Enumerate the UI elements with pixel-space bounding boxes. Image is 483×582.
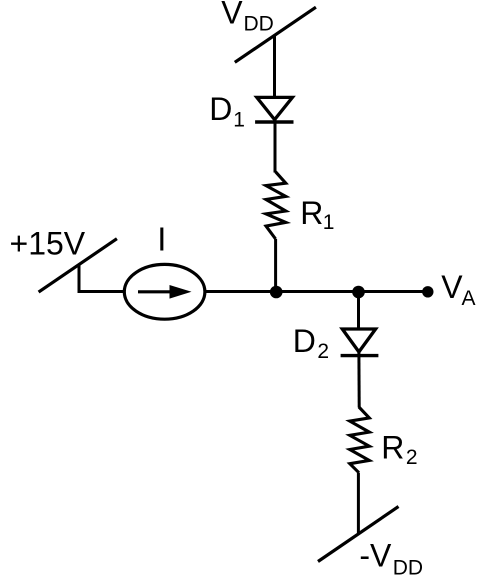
svg-text:R: R: [300, 195, 323, 231]
svg-text:2: 2: [406, 446, 418, 469]
svg-text:1: 1: [233, 108, 245, 131]
wire R2 to -VDD: [357, 473, 360, 533]
svg-text:R: R: [381, 430, 404, 466]
svg-text:1: 1: [323, 211, 335, 234]
resistor R2: [350, 407, 370, 473]
current source I: [124, 264, 205, 319]
diode D2: [341, 329, 379, 356]
wire D2 cathode to R2: [357, 352, 360, 408]
svg-text:DD: DD: [244, 13, 274, 36]
label R2: [381, 430, 417, 470]
label R1: [300, 195, 334, 234]
label VA: [441, 269, 475, 310]
terminal node VA: [422, 286, 433, 297]
svg-text:D: D: [293, 323, 316, 359]
wire node to D2 anode: [357, 292, 360, 329]
label D1: [209, 91, 245, 132]
wire D1 cathode to R1: [274, 120, 277, 173]
label D2: [293, 323, 329, 363]
supply rail -VDD (slash symbol): [318, 507, 399, 562]
supply rail +15V (slash symbol): [39, 239, 117, 292]
svg-text:DD: DD: [393, 556, 423, 579]
node junction D2/wire: [352, 286, 365, 299]
wire current source to VA terminal: [205, 290, 429, 293]
diode D1: [255, 97, 293, 122]
svg-text:2: 2: [317, 340, 329, 363]
wire R1 to node A: [274, 239, 277, 293]
svg-text:-V: -V: [359, 538, 392, 574]
label VDD: [221, 0, 274, 36]
supply rail VDD (slash symbol): [235, 7, 316, 62]
svg-text:V: V: [221, 0, 243, 30]
svg-text:I: I: [157, 220, 166, 257]
svg-text:A: A: [462, 287, 476, 310]
resistor R1: [266, 172, 286, 239]
wire VDD to D1 anode: [273, 35, 276, 98]
label -VDD: [359, 538, 423, 580]
svg-text:D: D: [209, 91, 232, 127]
svg-text:+15V: +15V: [10, 225, 86, 261]
node junction R1/wire: [270, 286, 283, 299]
wire +15V stub: [79, 265, 125, 292]
svg-text:V: V: [441, 269, 463, 305]
